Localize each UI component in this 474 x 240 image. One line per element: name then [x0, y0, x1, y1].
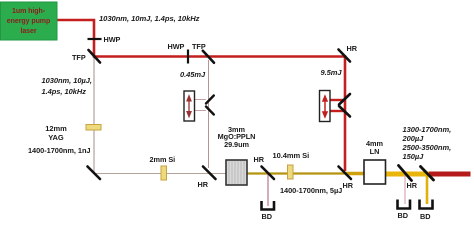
- wire pump beam from laser to TFP1 corner to HR top-right, down to lower line: [57, 20, 345, 171]
- mirror HR after PPLN: [262, 167, 275, 180]
- wire seed beam bottom horizontal to PPLN: [94, 173, 226, 175]
- label 10.4mm Si: [273, 151, 310, 160]
- delay stage right mirror M1: [339, 94, 350, 105]
- label 1400-1700nm 5uJ: [280, 186, 342, 195]
- mirror HR dichroic before PPLN: [203, 167, 216, 180]
- mirror HR top-right: [339, 50, 351, 62]
- delay stage right box: [320, 91, 331, 122]
- crystal LN box: [364, 160, 386, 184]
- label HWP2: [168, 42, 185, 51]
- laser pump source box: [1, 2, 58, 40]
- polarizer TFP1 mirror at corner: [89, 50, 101, 63]
- label 12mm YAG: [35, 125, 77, 142]
- half-wave plate HWP2 tick on horizontal beam: [187, 50, 189, 64]
- delay stage right translation arrows: [323, 96, 328, 118]
- filter 2mm Si plate: [161, 166, 167, 180]
- label TFP1: [72, 53, 86, 62]
- label HR after LN: [407, 181, 417, 190]
- delay stage left box: [184, 91, 195, 121]
- label 1400-1700nm 1nJ: [28, 146, 90, 155]
- wire gold amplified beam after LN: [385, 172, 430, 177]
- label BD3: [420, 212, 430, 221]
- mirror HR after LN: [399, 166, 412, 181]
- delay stage right mirror M2: [339, 106, 350, 117]
- beam dump BD2: [398, 200, 411, 209]
- label HR after PPLN: [254, 155, 264, 164]
- label BD1: [262, 212, 272, 221]
- label HWP1: [104, 35, 121, 44]
- label HR combiner: [343, 181, 353, 190]
- label 0.45mJ: [180, 70, 205, 79]
- label 3mm MgO:PPLN: [206, 126, 267, 149]
- mirror bottom-left corner: [88, 167, 101, 180]
- label 1030nm 10mJ: [99, 14, 199, 23]
- wire dump line from HR268 to BD: [267, 174, 269, 206]
- laser box label: [0, 7, 57, 37]
- label 1030nm 10uJ: [42, 76, 92, 97]
- filter 10.4mm Si plate: [288, 165, 294, 179]
- polarizer TFP2 mirror: [203, 51, 214, 63]
- wire gold segment combiner to LN: [345, 172, 364, 175]
- label 4mm LN: [357, 140, 392, 156]
- label 9.5mJ: [321, 68, 342, 77]
- wire delay stage left upper arm: [194, 99, 206, 101]
- label output parameters: [403, 125, 452, 161]
- crystal MgO:PPLN box: [226, 160, 247, 185]
- label TFP2: [192, 42, 206, 51]
- wire gold dump line from mirror 427 to BD: [426, 176, 429, 204]
- label HR top right: [347, 44, 357, 53]
- label HR before PPLN: [198, 180, 208, 189]
- wire delay stage left lower arm: [194, 110, 206, 112]
- delay stage left mirror M1: [206, 96, 214, 104]
- beam dump BD3: [420, 200, 433, 209]
- beam dump BD1: [262, 201, 275, 210]
- mirror splitter final: [421, 167, 434, 181]
- wire delay stage right upper arm: [330, 99, 344, 101]
- half-wave plate HWP1 tick on vertical beam: [88, 38, 102, 40]
- wire dump line from HR405 to BD: [404, 174, 406, 204]
- wire 0.45mJ beam down from TFP2: [208, 60, 210, 168]
- wire olive signal beam PPLN to LN: [247, 172, 345, 174]
- mirror HR dichroic combiner before LN: [339, 167, 352, 180]
- wire final idler output beam: [429, 172, 471, 177]
- crystal YAG plate: [86, 125, 101, 131]
- label 2mm Si: [150, 155, 176, 164]
- delay stage left mirror M2: [206, 107, 214, 115]
- wire delay stage right lower arm: [330, 110, 344, 112]
- label BD2: [398, 211, 408, 220]
- delay stage left translation arrows: [187, 96, 191, 118]
- wire 10uJ seed beam down from TFP1 through YAG: [93, 58, 95, 173]
